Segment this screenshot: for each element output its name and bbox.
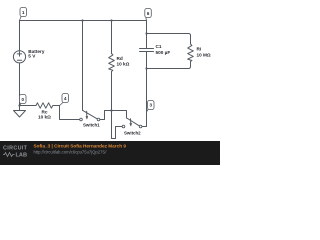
svg-text:http://circuitlab.com/c6cpu75u: http://circuitlab.com/c6cpu75u7jQp27S/ [34,149,108,154]
svg-text:10 MΩ: 10 MΩ [197,52,211,57]
svg-text:500 µF: 500 µF [156,50,171,55]
svg-text:Switch2: Switch2 [124,130,141,135]
svg-text:Rd: Rd [117,56,123,61]
svg-text:LAB: LAB [16,153,28,159]
svg-text:Ri: Ri [197,47,202,52]
svg-text:CIRCUIT: CIRCUIT [3,145,28,151]
svg-text:C1: C1 [156,44,162,49]
svg-text:5 V: 5 V [28,54,36,59]
svg-text:10 kΩ: 10 kΩ [117,61,130,66]
svg-text:Switch1: Switch1 [83,123,100,128]
svg-text:10 kΩ: 10 kΩ [38,115,51,120]
svg-text:Sofia_3 | Circuit Sofia Hernan: Sofia_3 | Circuit Sofia Hernandez March … [34,143,127,148]
